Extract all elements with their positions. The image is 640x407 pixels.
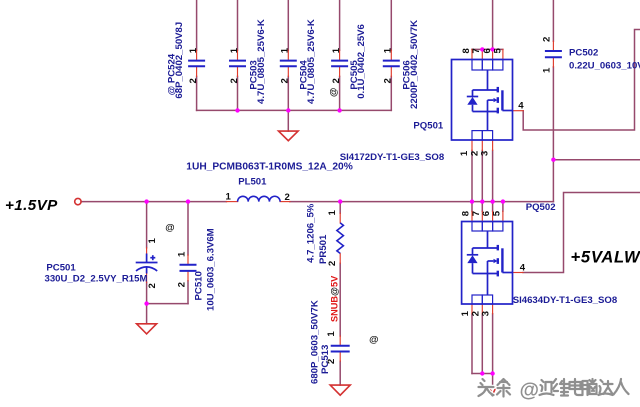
svg-text:2: 2 xyxy=(285,192,290,203)
svg-text:PL501: PL501 xyxy=(238,176,267,187)
svg-text:4.7_1206_5%: 4.7_1206_5% xyxy=(306,203,317,263)
svg-text:2: 2 xyxy=(188,78,199,83)
svg-text:1: 1 xyxy=(147,238,158,244)
svg-text:1: 1 xyxy=(177,251,188,257)
svg-text:2: 2 xyxy=(229,78,240,83)
svg-text:4.7U_0805_25V6-K: 4.7U_0805_25V6-K xyxy=(256,19,267,104)
svg-text:@: @ xyxy=(520,380,540,402)
svg-text:2200P_0402_50V7K: 2200P_0402_50V7K xyxy=(409,20,420,109)
svg-text:3: 3 xyxy=(480,151,491,156)
svg-text:0.22U_0603_10V7K: 0.22U_0603_10V7K xyxy=(569,60,640,71)
svg-text:1: 1 xyxy=(542,67,553,73)
svg-text:1UH_PCMB063T-1R0MS_12A_20%: 1UH_PCMB063T-1R0MS_12A_20% xyxy=(186,162,352,173)
svg-text:5: 5 xyxy=(491,210,502,216)
svg-text:PR501: PR501 xyxy=(318,234,329,264)
svg-text:SI4634DY-T1-GE3_SO8: SI4634DY-T1-GE3_SO8 xyxy=(513,295,618,306)
svg-text:1: 1 xyxy=(331,47,342,53)
svg-text:PQ502: PQ502 xyxy=(526,202,556,213)
svg-text:2: 2 xyxy=(147,283,158,288)
svg-text:7: 7 xyxy=(471,48,482,53)
svg-text:1: 1 xyxy=(188,47,199,53)
svg-text:1: 1 xyxy=(327,210,338,216)
svg-text:4: 4 xyxy=(520,262,526,273)
svg-text:SI4172DY-T1-GE3_SO8: SI4172DY-T1-GE3_SO8 xyxy=(340,152,445,163)
svg-text:1: 1 xyxy=(326,331,337,337)
svg-text:330U_D2_2.5VY_R15M: 330U_D2_2.5VY_R15M xyxy=(45,273,148,284)
svg-text:4: 4 xyxy=(518,100,524,111)
svg-text:2: 2 xyxy=(327,261,338,266)
svg-text:+1.5VP: +1.5VP xyxy=(5,197,58,214)
svg-text:PQ501: PQ501 xyxy=(413,121,444,132)
svg-text:5: 5 xyxy=(493,48,504,54)
svg-text:10U_0603_6.3V6M: 10U_0603_6.3V6M xyxy=(206,228,217,311)
svg-text:0.1U_0402_25V6: 0.1U_0402_25V6 xyxy=(356,24,367,99)
svg-text:2: 2 xyxy=(177,282,188,287)
svg-text:680P_0603_50V7K: 680P_0603_50V7K xyxy=(309,300,320,384)
svg-text:2: 2 xyxy=(542,37,553,42)
svg-text:2: 2 xyxy=(383,78,394,83)
svg-text:+5VALW: +5VALW xyxy=(571,248,640,267)
svg-text:SNUB@5V: SNUB@5V xyxy=(329,275,339,322)
svg-text:PC502: PC502 xyxy=(569,48,598,59)
svg-text:3: 3 xyxy=(481,311,492,316)
svg-text:@: @ xyxy=(369,335,378,346)
svg-text:4.7U_0805_25V6-K: 4.7U_0805_25V6-K xyxy=(306,19,317,104)
svg-text:@: @ xyxy=(165,222,174,233)
svg-text:PC501: PC501 xyxy=(46,262,76,273)
svg-text:2: 2 xyxy=(331,78,342,83)
svg-text:68P_0402_50V8J: 68P_0402_50V8J xyxy=(174,22,185,99)
svg-text:2: 2 xyxy=(326,359,337,364)
svg-text:1: 1 xyxy=(383,47,394,53)
svg-text:1: 1 xyxy=(226,191,232,202)
svg-text:6: 6 xyxy=(482,48,493,53)
svg-text:1: 1 xyxy=(229,47,240,53)
svg-text:@: @ xyxy=(329,88,340,97)
svg-text:1: 1 xyxy=(280,47,291,53)
svg-text:PC510: PC510 xyxy=(194,271,205,300)
svg-text:2: 2 xyxy=(280,78,291,83)
